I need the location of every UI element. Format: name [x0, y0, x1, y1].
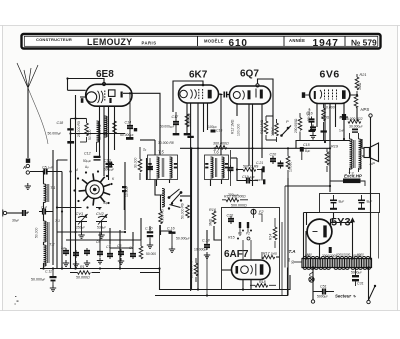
wire avc stub [71, 118, 87, 120]
svg-text:5000: 5000 [357, 253, 364, 257]
wire 6V6 plate right [350, 95, 357, 97]
svg-text:30pF: 30pF [12, 219, 19, 223]
IF can T5 [148, 155, 178, 180]
resistor 200k vertical [298, 113, 302, 141]
wire filterbox drop1 [331, 213, 334, 220]
tube 6Q7 bar1 [248, 90, 251, 99]
speaker HP [362, 143, 379, 162]
tube 6AF7 arcs [251, 265, 253, 274]
wire 5y3 left par [306, 213, 308, 225]
wire 6Q7 grid cap loop [258, 79, 274, 135]
svg-text:T.A: T.A [289, 249, 296, 254]
svg-text:50.000: 50.000 [146, 252, 156, 256]
wire hps drop [356, 108, 358, 121]
svg-text:C.18: C.18 [202, 239, 210, 243]
svg-text:500.000Ω: 500.000Ω [231, 204, 247, 208]
svg-text:10.000: 10.000 [324, 106, 335, 110]
resistor 10000 below 6V6 [321, 104, 327, 141]
svg-text:500.Ω R9: 500.Ω R9 [243, 165, 258, 169]
capacitor C19 1nF [244, 178, 258, 184]
capacitor 30000uF bars [352, 129, 358, 133]
capacitor C19 right bar [263, 179, 265, 184]
resistor R6 avc [181, 203, 190, 219]
wire x155 ext [155, 180, 163, 196]
wire bus y291 [160, 269, 291, 290]
tube 5Y3 envelope [307, 219, 332, 244]
capacitor C7 [107, 244, 113, 259]
oscillator switch K2 [168, 189, 183, 210]
wire c5 to t1 [30, 172, 62, 185]
capacitor 8uF a [330, 195, 337, 210]
wire x133 drop [132, 232, 134, 246]
resistor R13 500k [222, 198, 248, 202]
resistor R18 [250, 284, 276, 288]
capacitor C17 6K7 [173, 112, 180, 135]
tube 6Q7 envelope [229, 86, 270, 104]
resistor R21 [355, 74, 359, 95]
ground CV2 [98, 232, 104, 238]
power transformer TA core [302, 259, 372, 268]
svg-text:100.000: 100.000 [237, 124, 241, 136]
resistor R2 50k [113, 121, 117, 146]
svg-text:C13: C13 [104, 159, 111, 163]
svg-text:T.5: T.5 [158, 150, 164, 155]
wire HT arrowhead [351, 219, 354, 222]
svg-text:50.000μμF: 50.000μμF [160, 125, 175, 129]
svg-text:C5 1nF: C5 1nF [42, 166, 53, 170]
wire osc mid h248 [110, 247, 133, 249]
transformer primary bumps [303, 257, 370, 259]
svg-text:C15: C15 [216, 129, 222, 133]
terminal HPS [369, 114, 372, 117]
svg-text:C19 1nF: C19 1nF [242, 175, 255, 179]
resistor R11 vertical [264, 116, 268, 140]
svg-text:6Q7: 6Q7 [240, 69, 259, 80]
svg-text:CONSTRUCTEUR: CONSTRUCTEUR [36, 37, 72, 42]
resistor R9 500ohm [243, 168, 262, 172]
svg-text:2μF: 2μF [61, 246, 66, 250]
svg-text:LEMOUZY: LEMOUZY [87, 37, 132, 47]
svg-text:50.000pF: 50.000pF [48, 132, 62, 136]
wire x285 drop [284, 186, 286, 268]
capacitor C13 500uuF [106, 162, 114, 168]
svg-text:30: 30 [291, 260, 295, 264]
capacitor bus decoupling [50, 269, 57, 292]
wire box68 top [159, 225, 161, 269]
capacitor R9 right bar [262, 166, 264, 172]
resistor R17 [262, 255, 275, 259]
wire 5Y3 bottom lead [319, 244, 321, 259]
svg-text:300Ω R4: 300Ω R4 [188, 113, 192, 127]
wire left col x62 [61, 172, 63, 269]
svg-text:2000/2000: 2000/2000 [322, 254, 337, 258]
resistor R1 [70, 271, 100, 275]
svg-text:50.000: 50.000 [35, 228, 39, 238]
svg-text:30.000μF: 30.000μF [349, 125, 363, 129]
svg-text:2000/2000: 2000/2000 [335, 253, 351, 257]
heater center tap resistor [294, 261, 302, 263]
svg-text:1MΩ: 1MΩ [358, 82, 362, 90]
capacitor padder x124 [122, 186, 126, 210]
svg-text:R16: R16 [209, 208, 217, 212]
svg-text:1500: 1500 [305, 253, 312, 257]
wire 6Q7 leads down [237, 104, 262, 186]
svg-text:3MΩ: 3MΩ [209, 218, 213, 226]
capacitor cluster Cb [73, 250, 79, 267]
svg-text:T.6: T.6 [213, 150, 219, 155]
transformer bumps below [303, 268, 371, 270]
wire osc top h [57, 207, 102, 209]
resistor 10000 right [286, 148, 290, 178]
svg-text:C18: C18 [57, 121, 64, 125]
svg-text:4.000 R5: 4.000 R5 [161, 209, 165, 223]
capacitor antenna series [26, 159, 30, 163]
capacitor 30pF [20, 210, 28, 216]
capacitor C12 50uuF top [93, 156, 95, 158]
tube 6E8 plate bar [121, 92, 123, 98]
filter caps box [320, 194, 380, 213]
svg-text:Secteur ∿: Secteur ∿ [335, 294, 356, 299]
tube 6V6 left lead [305, 94, 309, 96]
capacitor C18 plate b [67, 141, 74, 144]
output transformer T3 [350, 133, 362, 174]
wire 6V6 leads down [317, 104, 344, 187]
tube 6AF7 left bar [236, 266, 239, 274]
svg-text:R19: R19 [331, 145, 339, 149]
svg-text:30.000 R8: 30.000 R8 [158, 141, 174, 145]
coil osc plate [105, 116, 108, 137]
svg-text:C.10: C.10 [145, 227, 152, 231]
svg-text:50.000pF: 50.000pF [120, 133, 134, 137]
tube 6V6 grid lines [325, 90, 337, 100]
svg-text:10.000: 10.000 [125, 187, 129, 197]
tube 6Q7 grid line [255, 89, 257, 98]
resistor R4 [184, 114, 194, 138]
tube 6Q7 top cap [256, 84, 259, 87]
wire long vertical v1 [197, 148, 199, 289]
wire y272 mid [140, 272, 160, 274]
wire t5 left frame [146, 158, 148, 180]
header inner frame [24, 36, 378, 46]
wire r17 right [276, 256, 280, 258]
tube 6V6 plate bar [342, 90, 346, 99]
field coil leads [330, 181, 365, 186]
svg-text:50.000 R6: 50.000 R6 [181, 203, 185, 219]
svg-text:6V6: 6V6 [320, 69, 340, 81]
capacitor C16b below 6V6 [309, 117, 316, 133]
tube 6K7 cathode circle [180, 90, 187, 97]
resistor R14 box right [273, 218, 277, 248]
svg-text:C20: C20 [227, 214, 234, 218]
svg-text:50.000μμ: 50.000μμ [307, 107, 311, 121]
capacitor C20 det [270, 153, 277, 165]
svg-text:6AF7: 6AF7 [224, 249, 249, 260]
svg-text:10.000pF: 10.000pF [194, 248, 208, 252]
wire 6K7 grid cap loop [173, 81, 203, 112]
svg-text:50.000Ω: 50.000Ω [76, 276, 90, 280]
wire HT arrow lead [352, 221, 354, 259]
svg-text:250pF: 250pF [76, 226, 85, 230]
ground antenna [25, 183, 31, 189]
resistor 100uF vertical [275, 119, 279, 142]
svg-text:PARIS: PARIS [142, 40, 157, 45]
svg-text:R1: R1 [80, 265, 85, 269]
wire bus y294 [155, 268, 288, 296]
wire 6K7 plate to T6 [219, 94, 222, 155]
svg-text:C14: C14 [125, 121, 132, 125]
contact dots box [237, 230, 252, 241]
wire x141 drop [140, 218, 142, 240]
tube 6E8 anode box [109, 90, 116, 97]
svg-text:30.000: 30.000 [134, 158, 138, 168]
capacitor C5 [42, 169, 50, 175]
wire pu terminal [7, 212, 22, 214]
svg-text:C.11: C.11 [45, 270, 52, 274]
tube 6K7 grid arc [191, 90, 197, 99]
svg-text:C12: C12 [84, 152, 91, 156]
resistor left of T5 [138, 147, 142, 180]
6AF7 box [222, 208, 280, 290]
svg-text:5000μF: 5000μF [351, 271, 362, 275]
tube 6E8 cathode bar [109, 98, 111, 103]
wire x296 drop [295, 140, 297, 148]
svg-text:R11 1MΩ: R11 1MΩ [260, 119, 264, 134]
tube 6Q7 diode circle [233, 92, 240, 99]
coil T2 core [47, 222, 49, 263]
svg-text:C7: C7 [106, 245, 110, 249]
wire left bus B [75, 95, 77, 269]
variable capacitor CV2 [96, 214, 108, 232]
coil osc grid [97, 121, 100, 152]
resistor HPS 1M [354, 95, 358, 108]
wire 6E8 grid cap [68, 79, 105, 84]
wire r5 top [161, 195, 173, 235]
svg-text:C15: C15 [303, 143, 310, 147]
svg-text:№ 579: № 579 [351, 37, 377, 47]
capacitor 100pF small [211, 130, 216, 133]
coil K2 osc [162, 189, 164, 207]
capacitor C14 [127, 93, 133, 137]
tuning eye F2 [251, 209, 256, 214]
svg-text:MODÈLE: MODÈLE [204, 39, 224, 44]
variable capacitor CV1 [76, 214, 88, 232]
capacitor C16 osc [169, 232, 176, 253]
IF can T6 [205, 155, 229, 180]
svg-text:C9: C9 [129, 246, 133, 250]
capacitor C51 [313, 289, 334, 295]
capacitor C13 padder [106, 163, 113, 168]
wire 6K7 leads down [187, 103, 208, 291]
wire 6AF7 leads down [243, 280, 251, 290]
svg-text:CV1: CV1 [76, 211, 84, 216]
svg-text:C20: C20 [270, 153, 277, 157]
capacitor C21 [228, 150, 234, 186]
capacitor C8 [118, 249, 124, 264]
ground C14 [126, 137, 133, 140]
antenna downlead curve [28, 88, 48, 144]
capacitor 2u T5 [147, 158, 153, 180]
svg-text:25.000 R3: 25.000 R3 [77, 121, 81, 137]
wire 6e8 left pin [68, 89, 86, 91]
band switch K1 [73, 170, 112, 209]
wire T1 top [52, 150, 54, 265]
svg-text:100.000Ω: 100.000Ω [328, 151, 332, 166]
tube 6V6 left blob [302, 92, 305, 98]
dial lamp [309, 272, 314, 282]
header divider 3 [344, 36, 346, 47]
wire bus y268 [40, 268, 160, 270]
svg-text:530pF: 530pF [97, 226, 106, 230]
wire long v x1915 ext [191, 225, 193, 290]
svg-text:M: M [75, 168, 78, 172]
wire C18 drop [206, 230, 208, 243]
svg-text:40pF: 40pF [103, 201, 110, 205]
resistor R10 300k [214, 146, 227, 150]
wire 5Y3 plate top [330, 219, 332, 225]
wire long vertical v2 [191, 148, 193, 225]
wire left col x57 [56, 160, 58, 269]
wire 6E8 avc lead [80, 96, 86, 98]
tube 6K7 top cap [202, 84, 205, 87]
tube 6AF7 plate bar [260, 264, 264, 274]
tube 6V6 envelope [310, 86, 350, 104]
svg-text:R21: R21 [360, 73, 367, 77]
wire y140 right [296, 140, 350, 142]
wire coil l2 join [43, 214, 45, 269]
terminal mains left [311, 300, 314, 303]
wire r9 c19 joins [237, 150, 262, 181]
wire lamp drop [312, 268, 314, 300]
mains switch lever [369, 285, 377, 300]
antenna vertical wire [27, 88, 29, 158]
wire x282 drop [281, 222, 283, 296]
svg-text:50.000pF: 50.000pF [31, 278, 46, 282]
wire 6E8 leads down [100, 106, 109, 180]
wire t6 bottom drops [211, 180, 222, 187]
wire power box right [378, 213, 380, 259]
svg-text:HP: HP [370, 161, 376, 166]
capacitor C15 8uF mid [300, 147, 304, 160]
svg-text:5Y3: 5Y3 [331, 217, 351, 229]
tube 6V6 cathode bar [314, 91, 316, 99]
capacitor edge det [278, 161, 284, 169]
wire y140 short [140, 139, 155, 141]
svg-text:6K7: 6K7 [189, 70, 208, 81]
wire 5y3 plate link [331, 222, 353, 224]
resistor R3 25k [80, 119, 88, 143]
capacitor C4 [40, 209, 48, 215]
svg-text:C.21: C.21 [256, 161, 263, 165]
tube 6AF7 envelope [232, 260, 271, 280]
capacitor C17b [340, 114, 348, 120]
wire osc mid h232 [57, 231, 125, 233]
wire 5Y3 left lead [306, 232, 307, 259]
svg-text:200.000Ω: 200.000Ω [294, 118, 298, 133]
svg-text:5000μF: 5000μF [317, 295, 328, 299]
tube 6E8 triode circle [86, 92, 96, 102]
svg-text:36.000 R22: 36.000 R22 [345, 117, 363, 121]
svg-text:200μμF: 200μμF [228, 193, 239, 197]
tube 6K7 envelope [179, 85, 219, 103]
wire 6AF7 box left drop [214, 226, 222, 240]
terminal mains right [367, 300, 370, 303]
capacitor C10 osc [145, 226, 156, 256]
wire mid horizontal bus [180, 147, 330, 149]
wire k2 right [180, 195, 192, 197]
capacitor C9 [130, 246, 136, 259]
svg-text:P1: P1 [238, 232, 242, 236]
wire pot joins [266, 116, 277, 140]
svg-text:C.4: C.4 [41, 206, 47, 210]
svg-text:1nF: 1nF [339, 129, 344, 133]
tube 6K7 grid lines [199, 89, 203, 100]
svg-text:R18: R18 [259, 280, 266, 284]
svg-text:300Ω: 300Ω [321, 116, 330, 120]
svg-text:C51: C51 [320, 285, 327, 289]
capacitor C12 padder [94, 156, 101, 161]
antenna mast [17, 63, 38, 88]
wire y158 joint [231, 157, 237, 159]
coil T1 core [47, 184, 49, 202]
wire x207 drop [206, 252, 208, 296]
capacitor C16 10uF [310, 125, 316, 139]
svg-text:R14: R14 [269, 234, 273, 240]
tube 6AF7 grid line [255, 264, 257, 276]
tube 6E8 envelope [86, 84, 132, 106]
svg-text:50.000: 50.000 [88, 130, 92, 140]
svg-text:10.000: 10.000 [289, 162, 293, 172]
wire c4 join [28, 212, 53, 214]
svg-text:50μμF: 50μμF [83, 159, 92, 163]
capacitor cluster Ca [63, 248, 69, 266]
tube 6AF7 circle [241, 266, 249, 274]
wire output wire y186 [285, 186, 330, 192]
svg-text:1947: 1947 [313, 38, 339, 49]
svg-text:C31: C31 [357, 282, 364, 286]
svg-text:P2: P2 [246, 232, 250, 236]
wire cv joint [57, 160, 68, 208]
capacitor C6 [97, 240, 103, 264]
svg-text:7.1: 7.1 [55, 219, 60, 223]
wire left bus A [67, 79, 69, 91]
tube 5Y3 plate bar [323, 225, 326, 237]
wire 6E8 plate to T5 [123, 93, 160, 155]
svg-text:Excit.HP: Excit.HP [344, 174, 362, 179]
svg-text:T.2: T.2 [49, 242, 55, 247]
wire 6af7 grid left [222, 269, 232, 271]
svg-text:50.000 R2: 50.000 R2 [98, 124, 102, 140]
resistor R5 [159, 210, 163, 231]
field coil Excit HP [343, 179, 361, 184]
svg-text:610: 610 [229, 38, 248, 49]
capacitor 100pF blob [134, 128, 137, 131]
svg-text:CV2: CV2 [96, 211, 105, 216]
capacitor C18 [204, 242, 210, 258]
svg-text:100μF: 100μF [271, 127, 275, 136]
svg-text:HPS: HPS [361, 107, 370, 112]
potentiometer P lever [280, 126, 291, 137]
box wires internal [240, 214, 262, 260]
wire osc mid h240 [66, 239, 141, 241]
svg-text:C8: C8 [117, 244, 121, 248]
resistor R7 200k [194, 258, 198, 282]
svg-text:Aμ: Aμ [85, 165, 89, 169]
tube 6E8 left pin blob [81, 98, 84, 103]
svg-text:50.000μF: 50.000μF [176, 237, 190, 241]
header divider 2 [283, 36, 285, 47]
svg-text:C6: C6 [96, 240, 100, 244]
resistor cluster Rj [139, 240, 143, 259]
